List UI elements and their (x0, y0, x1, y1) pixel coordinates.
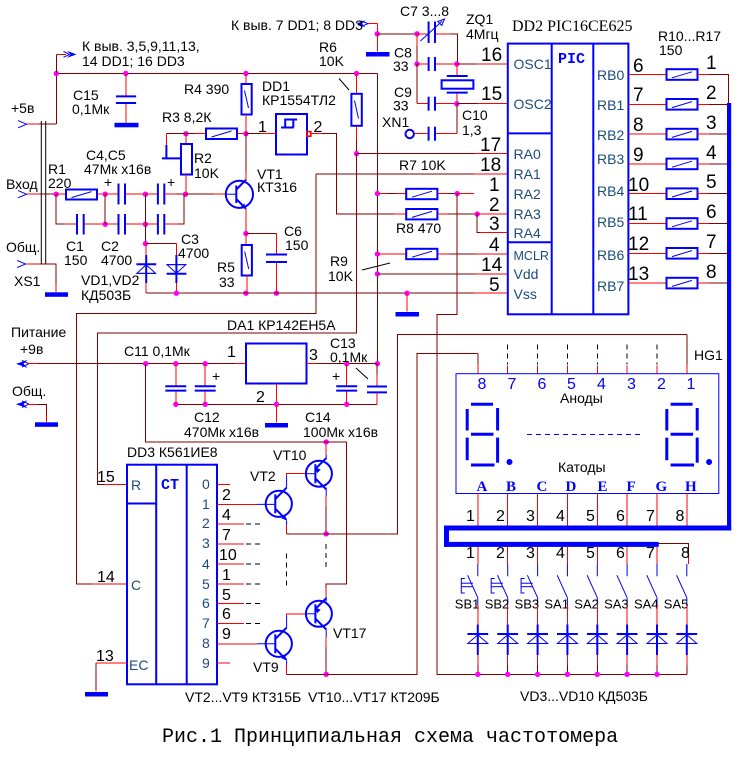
svg-text:Общ.: Общ. (6, 239, 40, 255)
diode VD6 (566, 625, 568, 656)
svg-text:6: 6 (706, 202, 717, 223)
node C2/C3/VD (143, 222, 148, 227)
wire RA0 line (357, 153, 475, 155)
svg-text:К выв. 7 DD1; 8 DD3: К выв. 7 DD1; 8 DD3 (231, 17, 363, 33)
node VT1 base (183, 192, 188, 197)
svg-text:6: 6 (538, 376, 547, 393)
svg-text:33: 33 (219, 274, 235, 290)
svg-text:4: 4 (706, 143, 717, 164)
svg-text:1: 1 (466, 545, 475, 562)
svg-text:8: 8 (706, 262, 717, 283)
wire OSC1 (457, 63, 477, 65)
svg-text:10K: 10K (194, 165, 220, 181)
svg-text:11: 11 (628, 204, 648, 225)
svg-text:4700: 4700 (178, 245, 209, 261)
resistor R16 row RB6 (628, 252, 666, 254)
svg-text:7: 7 (633, 85, 644, 106)
node C1/C2 (103, 222, 108, 227)
svg-text:470Мк х16в: 470Мк х16в (184, 424, 259, 440)
svg-text:16: 16 (481, 45, 502, 66)
svg-text:2: 2 (202, 515, 210, 531)
svg-text:+5в: +5в (11, 100, 34, 116)
svg-text:R5: R5 (217, 259, 235, 275)
chassis stub left of R2 (166, 133, 186, 135)
svg-text:4: 4 (556, 545, 565, 562)
svg-text:7: 7 (222, 527, 231, 544)
svg-text:8: 8 (676, 508, 685, 525)
svg-text:RB3: RB3 (597, 151, 624, 167)
svg-text:2: 2 (496, 508, 505, 525)
svg-text:1: 1 (202, 496, 210, 512)
terminal arrow common 2 (16, 400, 28, 408)
wire VT9 collector to VT17 base (286, 616, 288, 628)
svg-text:К выв. 3,5,9,11,13,: К выв. 3,5,9,11,13, (82, 38, 200, 54)
wire DD1 pin2 to RA3 resistor (311, 133, 322, 135)
svg-text:C7 3...8: C7 3...8 (400, 3, 449, 19)
svg-text:18: 18 (480, 155, 501, 176)
resistor R10 row RB0 (628, 74, 666, 76)
svg-text:RB2: RB2 (597, 127, 624, 143)
svg-text:100Мк х16в: 100Мк х16в (303, 424, 378, 440)
svg-text:RB1: RB1 (597, 97, 624, 113)
svg-text:33: 33 (393, 58, 409, 74)
svg-text:RA0: RA0 (514, 146, 541, 162)
svg-text:6: 6 (633, 56, 644, 77)
dashed separator (527, 433, 644, 435)
pointer to C13 (356, 368, 368, 379)
switch SB3 (537, 564, 539, 576)
resistor R17 row RB7 (628, 282, 666, 284)
svg-text:C11 0,1Мк: C11 0,1Мк (124, 343, 191, 359)
svg-text:R8 470: R8 470 (396, 220, 441, 236)
svg-text:7: 7 (706, 232, 717, 253)
ground Vss (404, 291, 409, 296)
wire VT2 collector to VT10 base (286, 476, 288, 488)
svg-text:5: 5 (222, 587, 231, 604)
wire +9V to emitter rail (146, 364, 347, 442)
svg-text:0: 0 (202, 476, 210, 492)
svg-text:15: 15 (481, 84, 502, 105)
resistor R2 (185, 134, 187, 144)
capacitor C9 (416, 64, 418, 104)
svg-text:RB7: RB7 (597, 278, 624, 294)
svg-text:6: 6 (616, 545, 625, 562)
svg-text:VD1,VD2: VD1,VD2 (81, 272, 140, 288)
resistor R12 row RB2 (628, 133, 666, 135)
svg-text:220: 220 (48, 175, 72, 191)
svg-text:9: 9 (222, 626, 231, 643)
svg-text:3: 3 (526, 545, 535, 562)
svg-text:2: 2 (489, 195, 500, 216)
svg-text:8: 8 (681, 545, 690, 562)
diode VD5 (537, 625, 539, 656)
svg-text:13: 13 (628, 264, 649, 285)
svg-text:G: G (656, 479, 668, 495)
svg-text:КТ316: КТ316 (257, 179, 297, 195)
svg-text:B: B (506, 479, 516, 495)
svg-text:VT2...VT9 КТ315Б: VT2...VT9 КТ315Б (185, 689, 301, 705)
svg-text:33: 33 (393, 98, 409, 114)
resistor R4 (245, 74, 247, 85)
switch SB2 (507, 564, 509, 576)
svg-text:MCLR: MCLR (514, 249, 549, 263)
svg-text:3: 3 (526, 508, 535, 525)
resistor R13 row RB3 (628, 163, 666, 165)
svg-text:5: 5 (586, 508, 595, 525)
terminal chevron +5v (18, 121, 27, 128)
svg-text:D: D (566, 479, 577, 495)
svg-text:H: H (685, 479, 697, 495)
svg-text:SA1: SA1 (544, 597, 569, 612)
svg-text:RA1: RA1 (514, 166, 541, 182)
switch SA5 (686, 564, 688, 576)
svg-text:VT10...VT17 КТ209Б: VT10...VT17 КТ209Б (308, 689, 440, 705)
resistor R15 row RB5 (628, 223, 666, 225)
svg-text:R3 8,2К: R3 8,2К (162, 109, 212, 125)
wire GND rail (analog) (146, 292, 240, 294)
svg-text:VT2: VT2 (250, 468, 276, 484)
svg-text:OSC1: OSC1 (514, 56, 552, 72)
connector XS1 lines (40, 121, 42, 264)
svg-text:КР1554ТЛ2: КР1554ТЛ2 (262, 92, 336, 108)
svg-text:OSC2: OSC2 (514, 96, 552, 112)
svg-text:Рис.1 Принципиальная схема час: Рис.1 Принципиальная схема частотомера (162, 726, 618, 749)
diode VD2 (175, 244, 177, 255)
svg-text:5: 5 (489, 275, 500, 296)
wire base (186, 193, 214, 195)
svg-text:+: + (332, 368, 340, 384)
svg-text:6: 6 (222, 606, 231, 623)
wire diode common rail to RA2 net (437, 194, 687, 675)
wire bus tail to SA5 (659, 544, 689, 559)
ground XS1 (45, 292, 68, 297)
diode VD7 (596, 625, 598, 656)
svg-text:5: 5 (706, 172, 717, 193)
svg-text:VT10: VT10 (273, 447, 307, 463)
svg-text:15: 15 (97, 469, 115, 486)
svg-text:C12: C12 (194, 409, 220, 425)
node C7 left (414, 31, 419, 36)
svg-text:SA3: SA3 (604, 597, 629, 612)
svg-text:14: 14 (97, 569, 115, 586)
svg-text:1: 1 (227, 344, 236, 361)
ground common 2 (35, 422, 58, 427)
seven-segment digit left (471, 403, 493, 406)
svg-text:RB6: RB6 (597, 247, 624, 263)
svg-text:E: E (598, 479, 608, 495)
svg-text:150: 150 (64, 252, 88, 268)
svg-text:2: 2 (706, 83, 717, 104)
svg-text:1: 1 (222, 567, 231, 584)
svg-text:ZQ1: ZQ1 (466, 11, 493, 27)
resistor R1 (56, 193, 66, 195)
svg-text:150: 150 (659, 42, 683, 58)
capacitor C1 (76, 214, 78, 235)
capacitor C2 (105, 223, 117, 225)
svg-text:9: 9 (202, 655, 210, 671)
svg-text:12: 12 (628, 234, 649, 255)
wire VT1 emitter (245, 209, 247, 234)
capacitor C3 (145, 223, 157, 225)
switch SA2 (596, 564, 598, 576)
svg-text:10K: 10K (319, 53, 345, 69)
svg-text:4: 4 (489, 235, 500, 256)
svg-text:3: 3 (706, 113, 717, 134)
svg-text:2: 2 (657, 376, 666, 393)
svg-text:C: C (537, 479, 548, 495)
ground DA1 (276, 404, 278, 422)
resistor R5 (245, 234, 247, 246)
svg-text:RA3: RA3 (514, 206, 541, 222)
switch SA3 (626, 564, 628, 576)
svg-text:Общ.: Общ. (12, 383, 46, 399)
svg-text:8: 8 (633, 115, 644, 136)
diode VD4 (507, 625, 509, 656)
svg-text:Аноды: Аноды (560, 390, 603, 406)
svg-text:3: 3 (489, 214, 500, 235)
svg-text:14: 14 (481, 255, 503, 276)
svg-text:C: C (131, 577, 141, 593)
node VD1/VD2 top (144, 224, 146, 243)
svg-text:2: 2 (222, 487, 231, 504)
svg-text:R7 10K: R7 10K (399, 157, 446, 173)
svg-text:SA5: SA5 (664, 597, 689, 612)
diode VD10 (686, 625, 688, 656)
svg-text:3: 3 (309, 347, 318, 364)
svg-text:1: 1 (687, 376, 696, 393)
terminal chevron input (18, 191, 27, 198)
capacitor C10 (414, 133, 427, 135)
seven-segment digit right (671, 403, 693, 406)
bus lower horizontal run (444, 526, 731, 531)
resistor R9 (377, 253, 406, 255)
HG1 anode pin stubs and dashed links (477, 354, 479, 364)
svg-text:3: 3 (627, 376, 636, 393)
wire VT10 emitter to +9V rail (325, 455, 327, 460)
ground top (366, 52, 390, 57)
svg-text:3: 3 (202, 535, 210, 551)
wire DA1 out +5V (307, 363, 317, 365)
svg-text:0,1Мк: 0,1Мк (330, 349, 368, 365)
svg-text:14 DD1; 16 DD3: 14 DD1; 16 DD3 (82, 53, 185, 69)
svg-text:R9: R9 (330, 253, 348, 269)
dashed continuation verticals (286, 554, 288, 590)
terminal arrow +9v (16, 360, 28, 368)
svg-text:XS1: XS1 (14, 273, 41, 289)
svg-text:1: 1 (466, 508, 475, 525)
svg-text:1,3: 1,3 (462, 122, 482, 138)
svg-text:7: 7 (202, 615, 210, 631)
svg-text:C10: C10 (462, 107, 488, 123)
switch SA1 (566, 564, 568, 576)
resistor R11 row RB1 (628, 103, 666, 105)
svg-text:4Мгц: 4Мгц (466, 26, 499, 42)
svg-text:КД503Б: КД503Б (81, 287, 131, 303)
pointer to R9 (362, 263, 390, 270)
svg-text:2: 2 (496, 545, 505, 562)
svg-text:4: 4 (222, 507, 231, 524)
svg-text:8: 8 (478, 376, 487, 393)
svg-text:VT9: VT9 (253, 659, 279, 675)
svg-text:7: 7 (646, 545, 655, 562)
diode VD9 (656, 625, 658, 656)
svg-text:RB5: RB5 (597, 214, 624, 230)
svg-text:7: 7 (508, 376, 517, 393)
terminal chevron common (17, 260, 26, 267)
svg-text:6: 6 (202, 595, 210, 611)
bus vertical right (727, 103, 731, 531)
svg-text:PIC: PIC (558, 51, 585, 68)
wire RA1 line (316, 173, 474, 175)
svg-text:VT17: VT17 (333, 625, 367, 641)
capacitor C4 (105, 193, 117, 195)
svg-text:150: 150 (285, 237, 309, 253)
DD3 out 0 stub (217, 484, 230, 486)
svg-text:EC: EC (129, 657, 148, 673)
svg-text:+: + (167, 174, 175, 190)
resistor R3 (195, 133, 206, 135)
node input (54, 192, 59, 197)
pin 2 bubble (307, 132, 311, 137)
svg-text:Vss: Vss (514, 286, 537, 302)
svg-text:RA4: RA4 (514, 225, 541, 241)
wire VT2 emitter down (286, 521, 288, 526)
svg-text:VD3...VD10 КД503Б: VD3...VD10 КД503Б (520, 688, 648, 704)
wire OSC2 (457, 103, 477, 105)
wire GND rail to Vss (240, 292, 474, 294)
wire Vdd (377, 273, 476, 275)
wire to gnd pins DD1/DD3 arrow (356, 20, 366, 27)
svg-text:10: 10 (219, 547, 237, 564)
svg-text:DD3 К561ИЕ8: DD3 К561ИЕ8 (127, 444, 218, 460)
svg-text:Катоды: Катоды (558, 459, 606, 475)
wire R6/RA0 to DD3 reset (98, 154, 357, 485)
svg-text:17: 17 (480, 135, 501, 156)
svg-text:SB1: SB1 (455, 597, 480, 612)
HG1 cathode leads row 1 (477, 494, 479, 526)
svg-text:CT: CT (161, 477, 179, 494)
svg-text:10K: 10K (328, 268, 354, 284)
svg-text:+9в: +9в (20, 341, 43, 357)
svg-text:5: 5 (586, 545, 595, 562)
arrow to DD1/DD3 Vcc pins (67, 51, 77, 58)
svg-text:XN1: XN1 (382, 114, 409, 130)
svg-text:R4 390: R4 390 (184, 81, 229, 97)
svg-text:8: 8 (202, 635, 210, 651)
switch SB1 (477, 564, 479, 576)
svg-text:4: 4 (202, 556, 210, 572)
svg-text:F: F (627, 479, 636, 495)
svg-text:+: + (212, 368, 220, 384)
wire RA1 to DD3 clock (77, 174, 317, 584)
svg-text:9: 9 (633, 145, 644, 166)
capacitor C5 (145, 193, 157, 195)
wire input lower branch (56, 194, 64, 224)
node +5V vertical rail (376, 74, 378, 364)
svg-text:DA1 КР142ЕН5А: DA1 КР142ЕН5А (227, 317, 336, 333)
svg-text:C14: C14 (305, 409, 331, 425)
svg-text:7: 7 (646, 508, 655, 525)
capacitor C8 (414, 61, 419, 66)
node +5V rail (56, 74, 377, 125)
svg-text:0,1Мк: 0,1Мк (72, 101, 110, 117)
transistor VT1 (226, 181, 253, 208)
svg-text:SB3: SB3 (515, 597, 540, 612)
wire VT17 collector / VT9 emitter to HG1 pin8 (325, 629, 327, 637)
svg-text:47Мк х16в: 47Мк х16в (84, 161, 151, 177)
svg-text:R2: R2 (194, 150, 212, 166)
svg-text:A: A (477, 479, 488, 495)
switch leads row 2 (477, 547, 479, 564)
svg-text:4700: 4700 (101, 252, 132, 268)
svg-text:Питание: Питание (11, 324, 66, 340)
crystal ZQ1 (456, 64, 458, 75)
ground below C15 (115, 123, 139, 128)
capacitor C6 (246, 233, 277, 235)
DD3 out 9 stub (217, 662, 230, 664)
wire GND rail DA1 (176, 403, 377, 405)
svg-text:RA2: RA2 (514, 186, 541, 202)
wire to K vyv. 3,5,9,11,13 arrow (55, 54, 57, 73)
wire C7/C8 vertical (416, 34, 418, 46)
svg-text:RB4: RB4 (597, 183, 624, 199)
diode VD1 (145, 244, 147, 255)
svg-text:6: 6 (616, 508, 625, 525)
svg-text:DD2 PIC16CE625: DD2 PIC16CE625 (512, 18, 632, 35)
svg-text:Vdd: Vdd (514, 266, 539, 282)
wire VT9 emitter down (286, 661, 288, 666)
switch SA4 (656, 564, 658, 576)
capacitor C15 (125, 74, 127, 96)
wire +9V rail (27, 363, 38, 365)
node R2 top / R3 left (183, 131, 188, 136)
resistor R6 (356, 74, 358, 94)
resistor R14 row RB4 (628, 193, 666, 195)
diode VD3 (477, 625, 479, 656)
wire VT1 collector (245, 134, 247, 172)
svg-text:SA2: SA2 (574, 597, 599, 612)
svg-text:1: 1 (489, 175, 500, 196)
svg-text:Вход: Вход (6, 176, 38, 192)
svg-text:1: 1 (706, 53, 717, 74)
svg-text:RB0: RB0 (597, 67, 624, 83)
wire DA1 pin2 (276, 384, 278, 405)
ground EC (85, 692, 108, 697)
wire VT10 collector / VT2 emitter to HG1 pin1 (325, 488, 327, 496)
wire rail down to VT17 emitter (326, 442, 346, 588)
pointer to R6 (339, 79, 349, 91)
svg-text:R: R (131, 477, 141, 493)
svg-text:5: 5 (202, 576, 210, 592)
svg-text:SB2: SB2 (485, 597, 510, 612)
diode VD8 (626, 625, 628, 656)
wire RA3 to RA4 (477, 214, 480, 233)
svg-text:SA4: SA4 (634, 597, 659, 612)
node DD1 pin1 (243, 131, 248, 136)
svg-text:13: 13 (96, 648, 114, 665)
svg-text:4: 4 (556, 508, 565, 525)
svg-text:10: 10 (628, 175, 649, 196)
svg-text:2: 2 (256, 389, 265, 406)
svg-text:HG1: HG1 (694, 347, 723, 363)
